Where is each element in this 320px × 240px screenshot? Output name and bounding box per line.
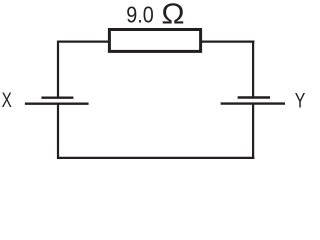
battery X short plate: [41, 96, 73, 98]
wire bottom segment: [57, 157, 254, 159]
battery Y long plate: [221, 102, 285, 104]
svg-text:Y: Y: [295, 88, 306, 112]
battery X long plate: [25, 102, 89, 104]
battery Y short plate: [238, 96, 270, 98]
svg-text:Ω: Ω: [161, 0, 184, 31]
wire right upper segment: [252, 41, 254, 98]
wire top-left segment: [57, 40, 109, 42]
wire left upper segment: [57, 41, 59, 98]
wire top-right segment: [201, 40, 254, 42]
wire left lower segment: [57, 104, 59, 159]
resistor R1 box: [109, 30, 200, 52]
wire right lower segment: [252, 104, 254, 159]
svg-text:9.0: 9.0: [126, 1, 154, 27]
svg-text:X: X: [2, 88, 12, 112]
